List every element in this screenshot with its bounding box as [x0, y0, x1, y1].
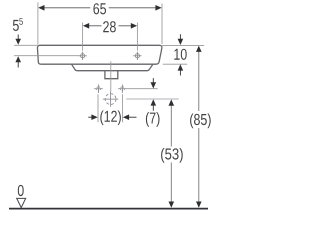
tap hole crosshair left on rim	[78, 52, 86, 60]
dimension (12) left outside arrow	[88, 116, 92, 118]
dimension 10 down arrow	[179, 34, 181, 40]
dimension (85) label	[190, 114, 211, 129]
tap hole crosshair right on rim	[133, 52, 141, 60]
dimension 65 extension line right	[161, 4, 163, 45]
dimension 28 arrow right	[131, 23, 137, 29]
dimension 65 extension line left	[37, 2, 39, 44]
drain centerline	[110, 61, 112, 91]
dimension 10 label	[174, 49, 186, 60]
dimension 5.5 up arrow	[15, 56, 21, 62]
dimension 28 arrow left	[83, 23, 89, 29]
drain plane line right	[126, 98, 179, 100]
fixing hole line extension right	[127, 88, 158, 90]
tap hole plane line (5.5 below rim)	[14, 55, 79, 57]
floor line	[9, 208, 208, 210]
dimension 5.5 down arrow	[17, 35, 19, 41]
dimension 28 label	[103, 21, 116, 32]
dimension (85) up arrow	[196, 46, 202, 52]
drain trap rectangle	[105, 71, 118, 79]
dimension 65 arrow right	[155, 5, 161, 11]
fixing hole cross right (plan)	[118, 84, 127, 93]
floor datum triangle	[17, 198, 26, 207]
dimension 28 extension line left	[82, 23, 84, 51]
rim bottom extension line right	[163, 63, 188, 65]
washbasin bowl underside	[72, 64, 153, 71]
dimension (53) up arrow	[169, 99, 175, 105]
dimension 28 line	[85, 25, 102, 27]
dimension (7) label	[146, 112, 160, 127]
floor datum zero label	[18, 185, 24, 196]
dimension 65 line	[41, 7, 90, 9]
rim top extension line right	[162, 44, 204, 46]
dimension (85) line	[198, 51, 200, 111]
dimension 28 extension line right	[136, 23, 138, 51]
washbasin rim outline (front view)	[37, 45, 161, 64]
dimension (53) label	[161, 148, 183, 163]
drain symbol dashed circle (plan)	[103, 91, 118, 106]
dimension (12) label	[100, 110, 121, 125]
fixing hole cross left (plan)	[94, 84, 103, 93]
rim top extension line left	[14, 44, 37, 46]
dimension 10 up arrow	[178, 64, 184, 70]
dimension (53) down arrow	[169, 202, 175, 208]
dimension 5.5 label	[13, 20, 19, 31]
dimension 65 label	[93, 3, 106, 14]
dimension (7) up arrow	[151, 99, 157, 105]
dimension (53) line	[170, 105, 172, 147]
dimension (85) down arrow	[196, 202, 202, 208]
dimension 65 arrow left	[38, 5, 44, 11]
dimension (7) down arrow	[152, 78, 154, 83]
dimension (12) extension line left	[97, 94, 99, 122]
dimension (12) extension line right	[122, 94, 124, 122]
dimension (12) right outside arrow	[123, 114, 129, 120]
